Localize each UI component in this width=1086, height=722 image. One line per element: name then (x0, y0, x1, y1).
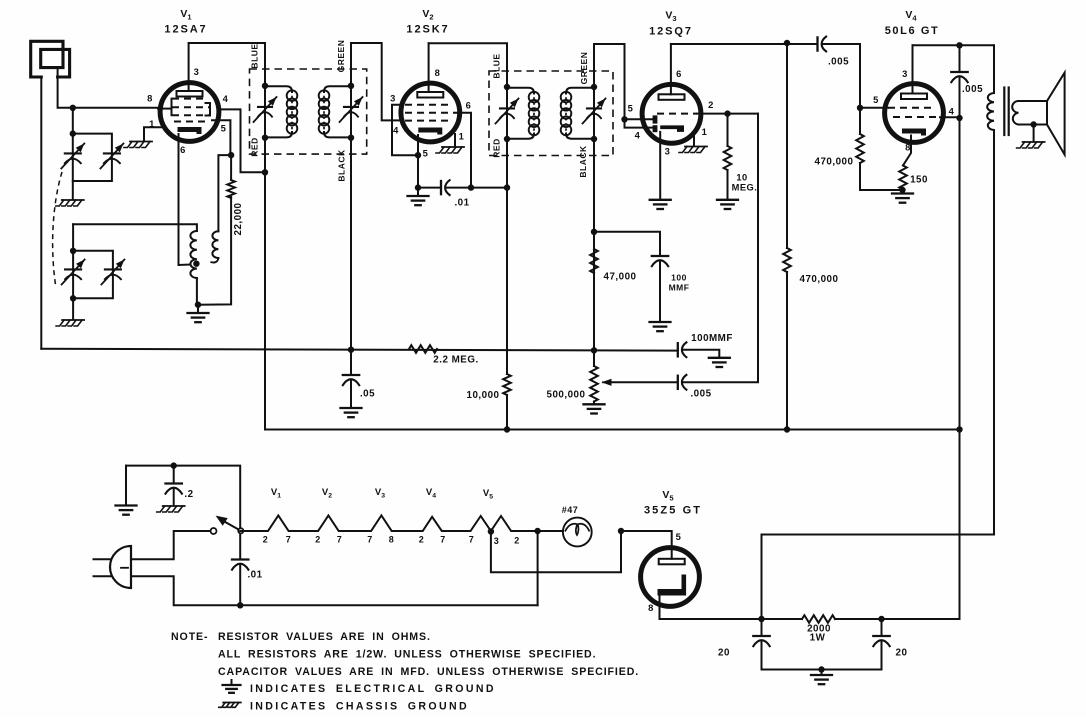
svg-text:2: 2 (708, 99, 714, 110)
svg-text:7: 7 (286, 535, 292, 545)
resistor 470,000 V4 grid (859, 108, 861, 134)
wire speaker ground lead (1033, 125, 1035, 142)
node plate bypass (956, 42, 962, 48)
wire T1 green to V2 grid (351, 43, 402, 120)
svg-text:NOTE-: NOTE- (171, 631, 208, 643)
svg-text:.05: .05 (360, 389, 375, 400)
svg-text:7: 7 (440, 535, 446, 545)
potentiometer 500,000 volume (593, 350, 595, 366)
node T1 blue (262, 83, 268, 89)
svg-text:BLUE: BLUE (250, 43, 260, 68)
svg-text:4: 4 (949, 106, 955, 117)
resistor R1 22,000 osc grid leak (227, 180, 235, 198)
svg-text:2: 2 (263, 535, 269, 545)
wire 22k bottom to ground node (198, 197, 231, 305)
V5 pin 8 cathode lead (660, 597, 762, 620)
node V2 cathode tie (415, 152, 421, 158)
wire to filter ground (821, 670, 823, 675)
wire line bypass top (126, 466, 240, 531)
svg-text:.005: .005 (690, 389, 711, 400)
V1 pin 8 stub (158, 108, 172, 110)
node T1 black (348, 135, 354, 141)
V1 pin 5 lead (212, 120, 230, 155)
V3 pin 6 plate lead (670, 44, 672, 94)
oscillator tickler coil L2 (212, 231, 218, 258)
V1 cathode bar (178, 127, 202, 134)
V1 pin 3 plate lead (188, 43, 190, 91)
capacitor .01 line bypass (239, 530, 241, 559)
capacitor .2 line bypass (173, 466, 175, 484)
node antenna/grid junction (70, 105, 76, 111)
node .2 tap (171, 462, 177, 468)
node 10,000 / B+ (504, 426, 510, 432)
T1 trimmer C (secondary) (344, 106, 358, 108)
svg-text:MMF: MMF (669, 283, 690, 293)
electrical ground line left (116, 504, 137, 506)
wire to chassis ground under box 2 (72, 298, 74, 319)
capacitor 20 MFD output (881, 619, 883, 636)
wire T2 black down to volume control (593, 139, 595, 350)
V2 pin 3 suppressor tie (392, 105, 418, 155)
chassis ground V3 shell (685, 146, 707, 148)
node V1 pin5/22k junction (228, 152, 234, 158)
node T1 green (348, 83, 354, 89)
node T1 red (262, 135, 268, 141)
svg-text:20: 20 (718, 648, 730, 659)
svg-text:2: 2 (419, 535, 425, 545)
capacitor .005 plate bypass (959, 45, 961, 72)
wire plug top prong to switch (131, 531, 211, 559)
node screen/B+ dropper junction (468, 184, 474, 190)
wire antenna outer lead to AVC bus (40, 77, 42, 349)
tube V3 12SQ7 envelope (642, 84, 701, 143)
svg-text:GREEN: GREEN (579, 52, 589, 85)
svg-text:35Z5 GT: 35Z5 GT (644, 505, 702, 517)
svg-text:470,000: 470,000 (815, 157, 854, 168)
wire heater tap shunt (491, 531, 621, 572)
node T2 red (504, 136, 510, 142)
svg-text:MEG.: MEG. (732, 183, 758, 193)
variable capacitor C2b (osc trimmer) (105, 268, 121, 270)
wire T1 black to AVC bus (350, 138, 352, 350)
svg-text:47,000: 47,000 (604, 272, 637, 283)
node tuning cap 1 top (70, 130, 76, 136)
V2 pin 8 plate lead (428, 43, 430, 92)
node filter input (758, 616, 764, 622)
wire to 100 MMF cap (594, 232, 660, 256)
V2 grid rows (405, 104, 448, 106)
V5 cathode bar (658, 575, 687, 596)
svg-text:INDICATES ELECTRICAL GROUND: INDICATES ELECTRICAL GROUND (250, 683, 496, 695)
T1 trimmer C (primary) (258, 106, 272, 108)
svg-text:12SA7: 12SA7 (164, 24, 207, 36)
node screen tap on T1 red line (262, 169, 268, 175)
legend electrical ground symbol (231, 680, 233, 685)
node V4 grid junction (857, 105, 863, 111)
speaker voice coil (1019, 100, 1027, 102)
svg-text:RED: RED (250, 137, 260, 156)
wire filter cap commons (762, 669, 882, 671)
V3 diode stub upper (625, 118, 654, 120)
V4 cathode bar (902, 129, 926, 136)
V2 plate bar (417, 92, 443, 98)
svg-text:5: 5 (221, 123, 227, 134)
V2 cathode bar (418, 128, 442, 135)
chassis ground V2 shell (442, 146, 464, 148)
node osc ground junction (195, 302, 201, 308)
capacitor .005 coupling to V4 (816, 37, 818, 50)
node T2 black (591, 136, 597, 142)
svg-text:20: 20 (896, 648, 908, 659)
capacitor 100 MMF (652, 255, 668, 257)
resistor 10,000 screen dropper (506, 188, 508, 374)
svg-text:BLUE: BLUE (492, 53, 502, 78)
capacitor C .05 AVC bypass (350, 350, 352, 375)
svg-text:6: 6 (180, 144, 186, 155)
svg-text:1W: 1W (810, 633, 826, 644)
T2 trimmer C (primary) (500, 107, 514, 109)
svg-text:1: 1 (702, 126, 708, 137)
wire antenna inner lead to V1 grid line (58, 68, 158, 108)
wire V1 plate to T1 BLUE (189, 43, 265, 86)
wire to chassis ground under box 1 (72, 181, 74, 199)
V4 grid rows (888, 107, 932, 109)
capacitor 100MMF AVC coupling (677, 343, 679, 356)
electrical ground V2 cathode (417, 188, 419, 195)
svg-text:3: 3 (494, 536, 500, 546)
svg-text:8: 8 (435, 67, 441, 78)
node V2 cathode bypass junction (415, 184, 421, 190)
chassis ground oscillator tuning (62, 319, 84, 321)
switch pivot (238, 528, 243, 533)
V3 cathode bar (660, 125, 684, 131)
T1 primary coil (265, 86, 292, 92)
wire T2 green to V3 diode plates (594, 44, 653, 128)
svg-text:3: 3 (902, 68, 908, 79)
node osc tuning bottom (70, 295, 76, 301)
V1 grid bracket left (171, 99, 173, 116)
node V3 diode junction (621, 116, 627, 122)
wire lamp to V5 plate (621, 531, 672, 559)
svg-text:3: 3 (194, 66, 200, 77)
svg-text:50L6 GT: 50L6 GT (885, 25, 940, 37)
V3 grid row (657, 113, 697, 115)
wire tuning cap 1 feed (72, 108, 74, 134)
V4 pin 4 screen stub (940, 116, 960, 118)
wire plug bottom prong to B- line (131, 576, 538, 605)
switch open contact (211, 528, 217, 534)
speaker frame lines (1026, 101, 1047, 125)
electrical ground 10 meg (717, 199, 738, 201)
svg-text:1: 1 (459, 131, 465, 142)
pilot lamp #47 (563, 518, 592, 547)
switch blade (223, 521, 241, 531)
svg-text:4: 4 (393, 125, 399, 136)
V3 diode plate bars (653, 115, 658, 123)
node osc coil tap (193, 261, 199, 267)
svg-text:100: 100 (671, 273, 687, 283)
B+ bus wire (265, 429, 960, 431)
tube V4 50L6 GT envelope (885, 84, 944, 143)
svg-text:5: 5 (873, 94, 879, 105)
svg-text:7: 7 (367, 535, 373, 545)
wire V4 plate to output transformer (913, 44, 995, 46)
output transformer core (1003, 88, 1005, 136)
wire B- riser (537, 531, 539, 605)
svg-text:5: 5 (628, 103, 634, 114)
svg-text:2: 2 (514, 536, 520, 546)
node B+ bus right end (956, 426, 962, 432)
node speaker ground tap (1030, 121, 1036, 127)
tube V5 35Z5 GT envelope (641, 548, 700, 607)
svg-text:8: 8 (389, 535, 395, 545)
electrical ground filter (811, 674, 832, 676)
svg-text:2: 2 (315, 535, 321, 545)
node T2 green (591, 84, 597, 90)
V1 grid rows (172, 98, 206, 100)
variable capacitor C1b (antenna trimmer) (104, 152, 120, 154)
V4 plate bar (901, 94, 927, 100)
node lamp right junction (618, 528, 624, 534)
svg-text:INDICATES CHASSIS GROUND: INDICATES CHASSIS GROUND (250, 701, 469, 713)
node switch/cap junction (237, 602, 243, 608)
T2 trimmer C (secondary) (587, 107, 601, 109)
wire ground stub (197, 305, 199, 312)
svg-text:8: 8 (147, 93, 153, 104)
svg-text:RED: RED (492, 138, 502, 157)
wire filter output to B+ riser (882, 618, 960, 620)
note text block (171, 631, 639, 713)
svg-text:GREEN: GREEN (336, 40, 346, 73)
svg-text:2.2 MEG.: 2.2 MEG. (433, 355, 478, 366)
node 100MMF tap on black line (591, 229, 597, 235)
svg-text:22,000: 22,000 (233, 202, 244, 235)
node B- riser junction (534, 528, 540, 534)
V1 grid bracket right (206, 103, 211, 116)
wire cathode to tap (179, 264, 191, 267)
node osc tuning top (70, 248, 76, 254)
svg-text:7: 7 (469, 535, 475, 545)
T2 secondary coil (566, 88, 594, 94)
node T2 blue (504, 84, 510, 90)
capacitor .005 audio coupling (677, 376, 679, 389)
node filter ground (818, 666, 824, 672)
wire V3 plate line to V4 grid cap (671, 43, 818, 45)
electrical ground volume pot (584, 403, 605, 405)
wire OT primary bottom to rectifier B+ (762, 130, 995, 619)
T2 secondary right line (593, 87, 595, 139)
svg-text:ALL RESISTORS ARE 1/2W. UNLESS: ALL RESISTORS ARE 1/2W. UNLESS OTHERWISE… (218, 649, 596, 661)
svg-text:8: 8 (648, 602, 654, 613)
wire left leg to ground (125, 466, 127, 505)
V1 plate bar (177, 91, 203, 97)
loop antenna (31, 41, 70, 77)
oscillator coil L1 (tapped) (190, 231, 197, 278)
V2 pin 6 screen lead (456, 113, 472, 188)
wire V2 plate to T2 BLUE (429, 43, 507, 87)
node 470k / B+ (784, 426, 790, 432)
svg-text:.01: .01 (454, 198, 469, 209)
svg-text:RESISTOR VALUES ARE IN OHMS.: RESISTOR VALUES ARE IN OHMS. (218, 631, 431, 643)
electrical ground .05 (341, 407, 362, 409)
wire T1 red to B+ bus (264, 138, 266, 430)
speaker cone (1047, 73, 1065, 155)
svg-text:150: 150 (910, 175, 928, 186)
V4 pin 5 grid stub (860, 107, 888, 109)
tuning capacitor box 2 frame (73, 251, 113, 298)
resistor 10 MEG grid leak (727, 114, 729, 146)
variable capacitor C1a (antenna tuning) (65, 152, 81, 154)
tube V2 12SK7 envelope (401, 83, 460, 142)
dashed gang line (mechanical link) (53, 172, 62, 288)
T1 secondary right line (350, 86, 352, 138)
chassis ground antenna tuning (62, 199, 84, 201)
resistor 2.2 MEG AVC filter (409, 345, 437, 353)
wire T2 red down to screen node (506, 139, 508, 188)
node AVC / T1 black / .05 (348, 347, 354, 353)
node V4 screen / bypass (956, 115, 962, 121)
variable capacitor C2a (osc tuning) (65, 268, 81, 270)
IF transformer T2 dashed box (489, 71, 613, 156)
capacitor C .01 screen bypass (418, 187, 440, 189)
svg-text:8: 8 (905, 142, 911, 153)
V1 pin 6 cathode lead (178, 134, 180, 265)
wire osc tank top (73, 224, 197, 231)
V4 pin 8 cathode lead (903, 136, 911, 166)
T1 primary left line (264, 86, 266, 138)
V1 pin 1 lead (144, 127, 162, 140)
wire tickler feed (218, 155, 231, 231)
legend chassis ground symbol (223, 702, 241, 704)
svg-text:3: 3 (390, 93, 396, 104)
svg-text:1: 1 (149, 118, 155, 129)
svg-text:12SQ7: 12SQ7 (649, 26, 693, 38)
svg-text:.005: .005 (828, 57, 849, 68)
electrical ground 100MMF (650, 321, 671, 323)
resistor 470,000 V3 plate load (786, 43, 788, 248)
electrical ground V4 cathode (902, 190, 904, 193)
svg-text:.005: .005 (962, 84, 983, 95)
V4 pin 3 plate lead (912, 45, 914, 93)
T1 secondary coil (324, 86, 351, 92)
svg-text:#47: #47 (562, 505, 579, 515)
resistor 150 cathode bias (899, 166, 907, 190)
svg-text:470,000: 470,000 (800, 274, 839, 285)
svg-text:.2: .2 (184, 489, 193, 500)
T2 primary coil (507, 88, 534, 94)
V3 cathode lead pin 3 (659, 132, 661, 199)
node filter output (878, 616, 884, 622)
node V3 grid / 10 meg (724, 110, 730, 116)
AVC bus wire (41, 349, 678, 351)
V3 pin 2 grid lead (697, 113, 758, 115)
chassis ground .2 (163, 505, 185, 507)
electrical ground 100MMF coupling (709, 357, 730, 359)
svg-text:BLACK: BLACK (337, 149, 347, 182)
V5 plate bar (659, 559, 685, 565)
svg-text:100MMF: 100MMF (691, 333, 733, 344)
svg-text:4: 4 (635, 130, 641, 141)
AC plug (110, 546, 131, 588)
electrical ground V3 cathode (650, 199, 671, 201)
svg-text:5: 5 (676, 531, 682, 542)
chassis ground speaker (1023, 141, 1045, 143)
tube V1 12SA7 envelope (160, 83, 219, 142)
node 35Z5 heater tap pin 3 (488, 528, 494, 534)
svg-text:4: 4 (223, 93, 229, 104)
svg-text:10: 10 (736, 173, 747, 183)
chassis ground V1 pin 1 (130, 141, 152, 143)
svg-text:CAPACITOR VALUES ARE IN MFD. U: CAPACITOR VALUES ARE IN MFD. UNLESS OTHE… (218, 666, 639, 678)
T2 primary left line (506, 87, 508, 139)
svg-text:6: 6 (676, 68, 682, 79)
svg-text:6: 6 (466, 100, 472, 111)
wire oscillator tuning top (72, 224, 74, 251)
electrical ground oscillator (188, 312, 209, 314)
V1 pin 4 screen lead (221, 109, 265, 172)
node 150/470k junction (899, 187, 905, 193)
resistor 47,000 diode load (590, 249, 598, 273)
node AVC / volume pot (591, 347, 597, 353)
svg-text:500,000: 500,000 (547, 390, 586, 401)
tuning capacitor box 1 frame (73, 134, 112, 181)
V3 plate bar (659, 94, 685, 100)
resistor 2000 1W filter (762, 618, 803, 620)
svg-text:7: 7 (337, 535, 343, 545)
wire osc coil bottom to ground node (196, 278, 198, 305)
svg-text:12SK7: 12SK7 (406, 24, 449, 36)
node 470k top (784, 40, 790, 46)
V3 pin 1 shell lead (693, 136, 695, 146)
V2 pin 1 shell lead (454, 134, 456, 146)
V2 cathode lead (417, 135, 419, 188)
wire B+ riser to filter (959, 430, 961, 620)
heater string wire with tube heaters (240, 515, 563, 531)
svg-text:10,000: 10,000 (467, 390, 500, 401)
svg-text:.01: .01 (247, 570, 262, 581)
pot wiper arrow (611, 381, 678, 383)
svg-text:3: 3 (665, 146, 671, 157)
capacitor 20 MFD input (761, 619, 763, 636)
output transformer primary coil (993, 45, 995, 93)
svg-text:BLACK: BLACK (578, 145, 588, 178)
svg-text:5: 5 (423, 148, 429, 159)
IF transformer T1 dashed box (250, 69, 367, 154)
